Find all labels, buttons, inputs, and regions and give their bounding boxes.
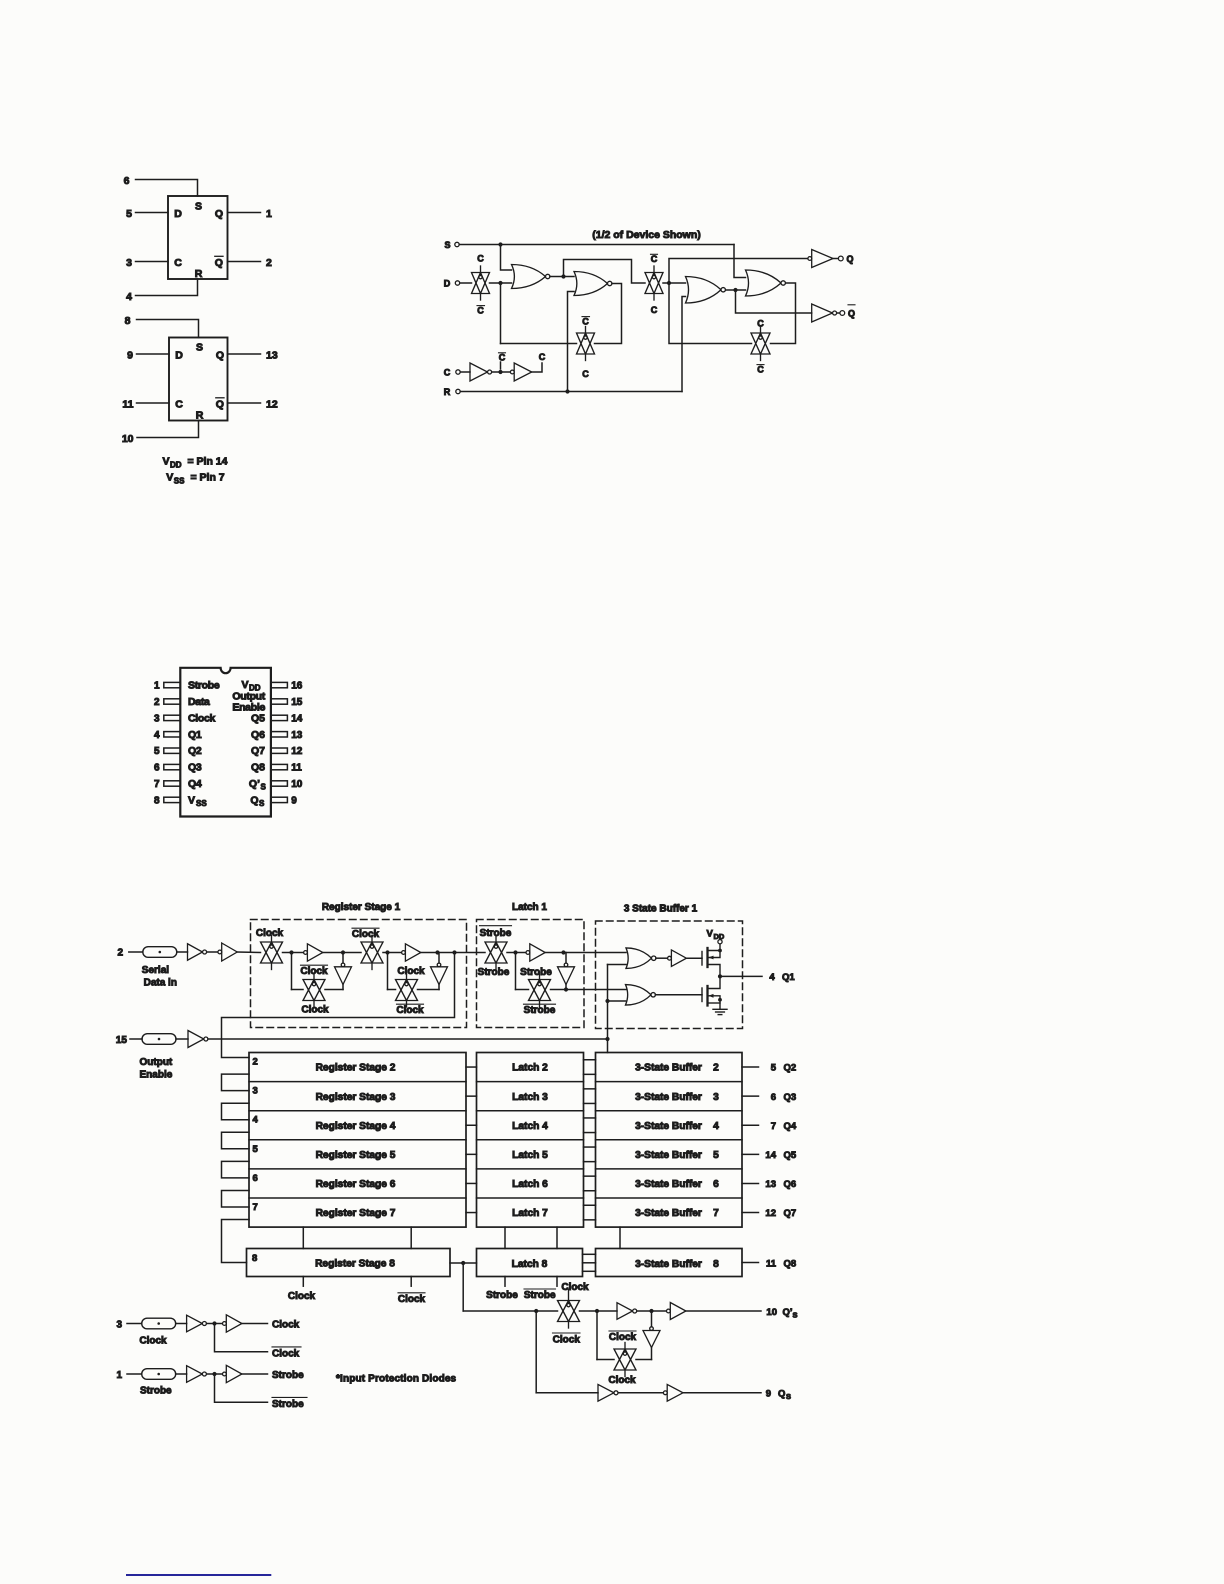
wire feedback segment first half (292, 989, 304, 991)
wire Q'S feedback drop (596, 1311, 598, 1360)
wire serial link stage 5 to stage 6 (222, 1161, 250, 1178)
svg-text:Clock: Clock (352, 929, 380, 940)
DIP pin 16 lead (271, 682, 288, 687)
wire Qbar output (837, 312, 840, 314)
svg-text:7: 7 (771, 1121, 776, 1132)
wire D to TG1 (460, 282, 472, 284)
wire diode to buffer (176, 1038, 188, 1040)
terminal VDD (718, 940, 722, 944)
wire upper NOR to INV-4 (656, 957, 668, 959)
node S tap junction (498, 242, 502, 246)
svg-text:Serial: Serial (142, 965, 169, 976)
svg-text:2: 2 (713, 1063, 719, 1074)
divider buffer row 6/7 (596, 1197, 743, 1199)
node register n1 junction (289, 950, 293, 954)
divider register stage row 6/7 (249, 1197, 466, 1199)
inverter latch INV-3 (bubble input) (526, 944, 545, 961)
svg-text:5: 5 (253, 1144, 259, 1155)
wire between serial buffers (207, 951, 218, 953)
svg-text:Latch 3: Latch 3 (512, 1092, 548, 1103)
divider buffer row 2/3 (596, 1081, 743, 1083)
svg-text:Clock: Clock (301, 1005, 329, 1016)
svg-text:13: 13 (765, 1179, 776, 1190)
wire strobe bus gap segment (504, 1227, 506, 1248)
DIP pin 12 lead (271, 748, 288, 753)
inverter Q'S feedback down (643, 1327, 660, 1348)
svg-text:Strobe: Strobe (520, 967, 552, 978)
svg-text:3: 3 (253, 1086, 258, 1097)
wire down inverter to feedback (651, 1348, 653, 1360)
transmission gate TG-QS2 (feedback, Clockbar) (614, 1343, 636, 1377)
svg-text:Clock: Clock (398, 1294, 426, 1305)
DIP pin 3 lead (164, 715, 181, 720)
svg-text:Clock: Clock (272, 1320, 300, 1331)
inverter latch feedback down INV-3f (558, 963, 575, 984)
wire Clock output (242, 1323, 268, 1325)
node slave input junction (667, 281, 671, 285)
FF1 pin 3 wire (136, 261, 169, 263)
wire INV-1f to feedback (342, 985, 344, 990)
svg-text:Q5: Q5 (784, 1150, 797, 1161)
NOR gate NOR4 (slave) (746, 270, 786, 296)
svg-text:Register Stage 6: Register Stage 6 (316, 1179, 396, 1190)
wire register 7 to latch 7 (466, 1212, 477, 1214)
svg-text:Register Stage 3: Register Stage 3 (316, 1092, 396, 1103)
wire OE bus gap segment (619, 1227, 621, 1248)
svg-text:4: 4 (253, 1115, 259, 1126)
wire between clock buffers (207, 1323, 223, 1325)
box 3-State Buffer 8 (596, 1249, 743, 1277)
DIP pin 11 lead (271, 764, 288, 769)
wire latch feedback to TG-F (516, 989, 529, 991)
wire register 3 to latch 3 (466, 1095, 477, 1097)
node NMOS bulk-source junction (718, 998, 722, 1002)
box Register Stage 8 (247, 1249, 451, 1277)
svg-text:Clock: Clock (553, 1334, 581, 1345)
NOR gate NOR2 (master) (574, 272, 612, 296)
node strobe junction (212, 1372, 216, 1376)
inverter QS INV-C (598, 1384, 618, 1401)
node latch feedback junction (564, 987, 568, 991)
svg-text:5: 5 (771, 1063, 777, 1074)
DIP pin 5 lead (164, 748, 181, 753)
svg-text:8: 8 (713, 1259, 719, 1270)
svg-text:Q7: Q7 (784, 1208, 797, 1219)
wire latch8 to buffer8 rung mid (583, 1262, 596, 1264)
input protection diode (serial data) (143, 947, 177, 958)
svg-text:Latch 5: Latch 5 (512, 1150, 548, 1161)
divider latch row 3/4 (477, 1110, 584, 1112)
svg-text:Strobe: Strobe (272, 1399, 304, 1410)
wire pin2 to protection diode (129, 951, 143, 953)
footer rule (blue) (127, 1574, 270, 1576)
node register stage 1 output (452, 950, 456, 954)
inverter Q output (bubble input) (808, 250, 833, 268)
wire n3 feedback drop (387, 953, 389, 990)
buffer inverter serial A (188, 944, 207, 961)
wire S to NOR4 top input (734, 245, 746, 278)
svg-text:S: S (793, 1311, 798, 1320)
divider latch row 6/7 (477, 1197, 584, 1199)
transmission gate TG-C (Clockbar) (361, 936, 383, 970)
node master input junction (498, 281, 502, 285)
wire feedback vertical (master) (500, 283, 502, 344)
FF2 pin 10 wire (137, 421, 199, 438)
svg-text:14: 14 (765, 1150, 776, 1161)
svg-text:Enable: Enable (140, 1070, 173, 1081)
DIP pin 6 lead (164, 764, 181, 769)
svg-text:V: V (707, 929, 714, 940)
svg-text:Register Stage 7: Register Stage 7 (316, 1208, 396, 1219)
FF2 pin 8 wire (137, 320, 199, 338)
FF1 pin 2 wire (Qbar output) (228, 261, 261, 263)
terminal Qbar (840, 311, 845, 316)
svg-text:Q8: Q8 (784, 1258, 797, 1269)
svg-text:Register Stage 8: Register Stage 8 (315, 1259, 395, 1270)
divider register stage row 2/3 (249, 1081, 466, 1083)
wire serial link stage 4 to stage 5 (222, 1132, 250, 1149)
svg-text:Strobe: Strobe (480, 928, 512, 939)
divider latch row 5/6 (477, 1168, 584, 1170)
wire pin1 to protection diode (127, 1373, 142, 1375)
node register n4 junction (435, 950, 439, 954)
svg-text:11: 11 (766, 1258, 777, 1269)
wire clockbar stub below register 8 (410, 1277, 412, 1287)
wire output enable line (208, 1038, 608, 1040)
wire latch output to 3-state NOR (545, 952, 626, 954)
svg-text:Q’: Q’ (783, 1307, 793, 1318)
DIP pin 10 lead (271, 781, 288, 786)
wire S line (459, 244, 734, 246)
svg-text:Strobe: Strobe (524, 1005, 556, 1016)
svg-text:Clock: Clock (608, 1375, 636, 1386)
wire strobebar stub below latch 8 (556, 1277, 558, 1287)
DIP package body (180, 668, 271, 817)
wire NOR1 out to TG3 (564, 260, 646, 284)
FF2 pin 9 wire (137, 353, 170, 355)
NOR gate upper (3-state control) (626, 948, 656, 969)
wire QS line to inverter (536, 1392, 598, 1394)
wire clock stub below register 8 (302, 1277, 304, 1287)
wire n2 to down inverter (342, 953, 344, 964)
svg-text:Clock: Clock (396, 1005, 424, 1016)
node register 8 output junction (461, 1261, 465, 1265)
wire Cbar node (492, 371, 510, 373)
wire pin3 to protection diode (127, 1323, 142, 1325)
svg-text:Clock: Clock (561, 1282, 589, 1293)
node PMOS source junction (718, 949, 722, 953)
transmission gate TG4 (slave feedback) (751, 327, 770, 361)
buffer inverter clock B (bubble input) (223, 1315, 242, 1332)
inverter register stage INV-2 (bubble input) (402, 944, 421, 961)
wire buffer 4 output (742, 1124, 759, 1126)
wire Q'S output (686, 1310, 761, 1312)
wire INV-C to INV-D (618, 1392, 663, 1394)
svg-text:DD: DD (714, 932, 725, 941)
wire buffer 5 output (742, 1153, 759, 1155)
wire TG-A to inverter (283, 952, 304, 954)
node R tap junction (565, 389, 569, 393)
wire Q'S node to down inverter (651, 1311, 653, 1327)
svg-text:Strobe: Strobe (524, 1290, 556, 1301)
buffer inverter strobe A (187, 1366, 207, 1383)
wire latch8 to buffer8 rung upper (583, 1253, 596, 1255)
svg-text:6: 6 (771, 1092, 776, 1103)
wire latch 2 to buffer 2 rung upper (584, 1059, 596, 1061)
wire Strobe output (242, 1373, 268, 1375)
wire register 2 to latch 2 (466, 1066, 477, 1068)
wire buffer 2 output (742, 1066, 759, 1068)
NOR gate NOR3 (slave) (686, 277, 726, 304)
FF1 pin 1 wire (Q output) (228, 212, 261, 214)
svg-text:2: 2 (117, 948, 123, 959)
divider buffer row 3/4 (596, 1110, 743, 1112)
node register n3 junction (385, 950, 389, 954)
buffer inverter clock A (187, 1315, 207, 1332)
wire QS branch down (535, 1311, 537, 1393)
wire slave node to Q inverter (669, 259, 808, 284)
DIP pin 2 lead (164, 699, 181, 704)
FF1 pin 5 wire (136, 212, 169, 214)
wire slave node to TG4 feedback (669, 283, 752, 344)
flip-flop FF1 (top D-type flip-flop symbol) (168, 196, 228, 279)
svg-text:Q1: Q1 (782, 972, 795, 983)
svg-text:Register Stage 5: Register Stage 5 (316, 1150, 396, 1161)
svg-text:Clock: Clock (288, 1291, 316, 1302)
svg-text:4: 4 (769, 972, 775, 983)
svg-text:3-State Buffer: 3-State Buffer (635, 1208, 702, 1219)
inverter feedback down INV-2f (431, 963, 448, 984)
wire latch n1 feedback drop (515, 953, 517, 990)
svg-text:6: 6 (253, 1173, 258, 1184)
svg-text:3 State Buffer 1: 3 State Buffer 1 (624, 904, 698, 915)
wire S to NOR1 top input (501, 245, 512, 271)
wire OE to lower NOR (608, 1000, 626, 1002)
wire latch 6 to buffer 6 rung upper (584, 1175, 596, 1177)
FF2 pin 11 wire (137, 402, 170, 404)
svg-text:Latch 4: Latch 4 (512, 1121, 548, 1132)
wire latch 2 to buffer 2 rung lower (584, 1073, 596, 1075)
transmission gate TG-F (feedback, Strobe) (529, 973, 551, 1007)
svg-text:Q: Q (778, 1389, 785, 1400)
node Cbar junction (498, 370, 502, 374)
wire latch 3 to buffer 3 rung lower (584, 1102, 596, 1104)
wire to QS transmission gate (463, 1310, 557, 1312)
svg-text:Latch 7: Latch 7 (512, 1208, 548, 1219)
svg-text:4: 4 (713, 1121, 719, 1132)
transmission gate TG2 (master feedback) (577, 327, 595, 361)
wire register 5 to latch 5 (466, 1153, 477, 1155)
transmission gate TG-QS (Clock) (558, 1290, 580, 1329)
transmission gate TG1 (D input) (472, 266, 490, 300)
wire serial link stage 2 to stage 3 (222, 1074, 250, 1091)
wire buffer 7 output (742, 1212, 759, 1214)
svg-text:Clock: Clock (256, 928, 284, 939)
svg-text:2: 2 (253, 1057, 258, 1068)
svg-text:Strobe: Strobe (140, 1386, 172, 1397)
node OE junction (605, 1037, 609, 1041)
svg-text:Latch 1: Latch 1 (512, 902, 547, 913)
divider register stage row 3/4 (249, 1110, 466, 1112)
FF1 pin 4 wire (136, 279, 198, 296)
svg-text:Clock: Clock (300, 966, 328, 977)
inverter register stage INV-1 (bubble input) (304, 944, 323, 961)
svg-text:15: 15 (116, 1035, 128, 1046)
svg-text:3-State Buffer: 3-State Buffer (635, 1179, 702, 1190)
wire lower NOR to NMOS gate (655, 994, 702, 996)
wire NOR4 output to TG4 (771, 283, 796, 344)
node NOR1 output junction (561, 274, 565, 278)
wire Q'S feedback line (597, 1359, 614, 1361)
divider buffer row 5/6 (596, 1168, 743, 1170)
svg-text:Latch 6: Latch 6 (512, 1179, 548, 1190)
svg-text:S: S (786, 1392, 791, 1401)
ground symbol (713, 1009, 727, 1014)
svg-text:8: 8 (252, 1253, 257, 1264)
wire NOR2 output to TG2 feedback (595, 284, 622, 344)
svg-text:Clock: Clock (397, 966, 425, 977)
svg-text:Q3: Q3 (784, 1092, 797, 1103)
svg-text:Strobe: Strobe (478, 967, 510, 978)
wire buffer 3 output (742, 1095, 759, 1097)
DIP pin 8 lead (164, 797, 181, 802)
wire buffer 8 output (742, 1262, 759, 1264)
transmission gate TG-D (feedback, Clock) (396, 973, 418, 1007)
wire clock bus gap segment (302, 1227, 304, 1248)
inverter clock INV2 (bubble input) (510, 363, 531, 381)
wire OE down to buffer column (607, 1039, 609, 1053)
transistor Q-N (NMOS pull-down) (702, 976, 720, 1009)
wire diode to buffer (176, 1373, 187, 1375)
wire latch 6 to buffer 6 rung lower (584, 1190, 596, 1192)
node Q'S latch junction (595, 1309, 599, 1313)
svg-text:Clock: Clock (609, 1332, 637, 1343)
wire OE vertical to NOR gates (607, 965, 609, 1040)
wire Clockbar branch (215, 1324, 268, 1352)
divider register stage row 4/5 (249, 1139, 466, 1141)
svg-text:Register Stage 2: Register Stage 2 (316, 1063, 396, 1074)
wire latch node to down inverter (565, 953, 567, 964)
dashed box Latch 1 (477, 920, 585, 1028)
inverter QS INV-D (bubble input) (663, 1384, 683, 1401)
wire serial link stage 6 to stage 7 (222, 1191, 250, 1208)
wire NOR1 output (550, 276, 574, 278)
wire latch 4 to buffer 4 rung lower (584, 1132, 596, 1134)
svg-text:3-State Buffer: 3-State Buffer (635, 1063, 702, 1074)
wire strobe stub below latch 8 (504, 1277, 506, 1287)
input protection diode (output enable) (142, 1034, 176, 1045)
wire Q output (833, 258, 838, 260)
wire R to NOR2 input (568, 292, 575, 392)
wire INV-A output (637, 1310, 667, 1312)
transmission gate TG3 (master to slave) (645, 266, 663, 300)
svg-text:Clock: Clock (272, 1348, 300, 1359)
node Q1 output junction (718, 974, 722, 978)
wire strobebar bus gap segment (556, 1227, 558, 1248)
dashed box 3 State Buffer 1 (596, 921, 743, 1029)
buffer inverter strobe B (bubble input) (223, 1365, 242, 1382)
svg-text:Clock: Clock (139, 1336, 167, 1347)
svg-text:3-State Buffer: 3-State Buffer (635, 1121, 702, 1132)
svg-text:Register Stage 1: Register Stage 1 (322, 902, 401, 913)
wire TG-E to inverter (507, 952, 526, 954)
node register n2 junction (341, 950, 345, 954)
wire INV-4 to PMOS gate (686, 957, 702, 959)
wire n1 feedback drop (291, 953, 293, 990)
transmission gate TG-A (Clock) (261, 936, 283, 970)
input protection diode (clock) (142, 1318, 176, 1329)
wire register 6 to latch 6 (466, 1182, 477, 1184)
svg-text:3: 3 (116, 1319, 122, 1330)
divider buffer row 4/5 (596, 1139, 743, 1141)
svg-text:Strobe: Strobe (272, 1370, 304, 1381)
transistor Q-P (PMOS pull-up) (702, 944, 720, 977)
svg-text:Latch 2: Latch 2 (512, 1063, 548, 1074)
svg-text:9: 9 (766, 1389, 771, 1400)
inverter clock INV1 (470, 363, 492, 381)
svg-text:5: 5 (713, 1150, 719, 1161)
wire serial link stage 3 to stage 4 (222, 1103, 250, 1120)
divider register stage row 5/6 (249, 1168, 466, 1170)
inverter Q'S INV-B (bubble input) (667, 1303, 686, 1320)
node latch n1 junction (513, 950, 517, 954)
svg-text:*Input Protection Diodes: *Input Protection Diodes (336, 1374, 457, 1385)
wire TG1 to NOR1 (490, 282, 512, 284)
inverter Qbar output (812, 304, 837, 322)
svg-text:1: 1 (116, 1370, 122, 1381)
wire latch8 to buffer8 rung lower (583, 1270, 596, 1272)
wire NOR3 output (726, 289, 746, 291)
wire TG-QS output (580, 1310, 618, 1312)
wire C to inverter (460, 371, 470, 373)
wire diode to buffer (176, 1323, 187, 1325)
wire INV-2f to feedback (438, 985, 440, 990)
wire serial into register stage 1 (237, 951, 260, 954)
box Latch 8 (477, 1249, 583, 1277)
divider latch row 4/5 (477, 1139, 584, 1141)
FF2 pin 13 wire (Q output) (228, 353, 261, 355)
svg-text:Register Stage 4: Register Stage 4 (316, 1121, 396, 1132)
box 3-state buffer column (buffers 2-7) (596, 1053, 743, 1228)
wire INV-2 output to latch (421, 952, 485, 954)
svg-text:7: 7 (713, 1208, 719, 1219)
svg-text:Q2: Q2 (784, 1063, 797, 1074)
wire stage1 output routing to stage2 (222, 953, 455, 1058)
FF1 pin 6 wire (136, 180, 198, 197)
wire TG3 output (663, 282, 686, 284)
wire R line (460, 391, 682, 393)
NOR gate NOR1 (master) (512, 265, 550, 289)
wire between strobe buffers (207, 1373, 223, 1375)
buffer inverter serial B (bubble input) (218, 943, 237, 961)
svg-text:Q4: Q4 (784, 1121, 797, 1132)
flip-flop FF2 (bottom D-type flip-flop symbol) (169, 338, 228, 421)
svg-text:3: 3 (713, 1092, 719, 1103)
wire latch 7 to buffer 7 rung lower (584, 1219, 596, 1221)
svg-text:Output: Output (140, 1057, 173, 1068)
transmission gate TG-B (feedback, Clockbar) (303, 973, 325, 1007)
terminal Q (838, 256, 843, 261)
wire OE to upper NOR (608, 964, 627, 966)
wire buffer 6 output (742, 1182, 759, 1184)
wire R to NOR3 input (682, 297, 686, 392)
wire INV-3f to feedback (565, 985, 567, 990)
wire feedback segment second half (388, 989, 396, 991)
svg-text:Q6: Q6 (784, 1179, 797, 1190)
DIP pin 7 lead (164, 781, 181, 786)
buffer inverter output enable (188, 1031, 208, 1048)
svg-text:6: 6 (713, 1179, 719, 1190)
